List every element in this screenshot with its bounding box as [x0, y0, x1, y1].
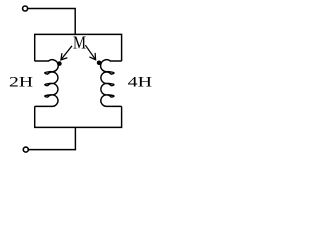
- svg-text:4H: 4H: [128, 75, 153, 91]
- svg-text:M: M: [73, 32, 86, 52]
- svg-text:2H: 2H: [9, 75, 33, 91]
